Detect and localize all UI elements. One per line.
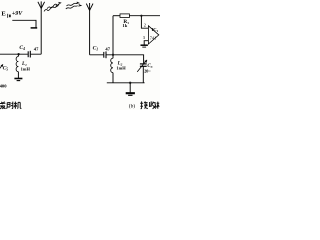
svg-text:E: E [1, 10, 6, 17]
svg-text:+9V: +9V [12, 11, 23, 17]
svg-text:400: 400 [0, 83, 7, 88]
svg-text:1mH: 1mH [21, 67, 31, 72]
svg-text:1k: 1k [122, 23, 127, 28]
svg-text:(b): (b) [129, 102, 135, 109]
svg-text:47: 47 [34, 47, 39, 52]
svg-text:47: 47 [105, 47, 110, 52]
svg-text:1mH: 1mH [116, 65, 126, 70]
svg-text:2: 2 [144, 23, 146, 28]
svg-text:741: 741 [150, 36, 157, 41]
svg-text:20~: 20~ [144, 68, 151, 73]
svg-text:IC1: IC1 [152, 27, 159, 33]
